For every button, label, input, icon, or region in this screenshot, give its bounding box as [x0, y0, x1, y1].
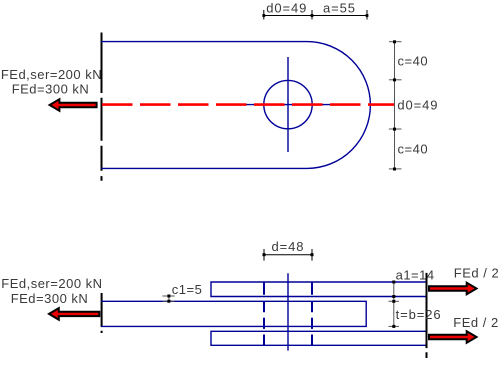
top fork plate [211, 282, 427, 297]
pin edge left (hidden, dashed) [263, 281, 265, 345]
force arrow FEd/2 lower [429, 331, 477, 343]
force arrow FEd/2 upper [429, 283, 477, 295]
force arrow FEd (left, top view) [50, 99, 97, 111]
svg-text:FEd,ser=200 kN: FEd,ser=200 kN [1, 67, 102, 82]
pin centerline (bottom) [287, 273, 289, 350]
svg-text:a=55: a=55 [323, 0, 356, 15]
pin hole [264, 80, 312, 128]
dimension d0=49 / a=55 (top) [264, 10, 367, 20]
dimension c=40 / d0=49 / c=40 (right) [389, 42, 402, 169]
svg-text:FEd / 2: FEd / 2 [454, 266, 499, 281]
support line left (black dashed) [101, 33, 103, 182]
svg-text:d=48: d=48 [272, 239, 305, 254]
dimension c1=5 [162, 296, 174, 301]
pin edge right (hidden, dashed) [311, 281, 313, 345]
svg-text:c=40: c=40 [398, 53, 429, 68]
lug outline [101, 42, 370, 169]
support line left (bottom view) [101, 293, 103, 334]
middle plate (lug plate) [101, 301, 366, 326]
bottom fork plate [211, 331, 427, 345]
svg-text:FEd / 2: FEd / 2 [453, 315, 498, 330]
svg-text:FEd=300 kN: FEd=300 kN [11, 291, 89, 306]
svg-text:c=40: c=40 [398, 142, 429, 157]
svg-text:d0=49: d0=49 [266, 0, 307, 15]
dimension d=48 (bottom) [264, 249, 312, 261]
svg-text:t=b=26: t=b=26 [396, 307, 442, 322]
force arrow FEd (left, bottom view) [49, 308, 99, 320]
svg-text:a1=14: a1=14 [396, 268, 435, 283]
support line right (bottom view) [426, 273, 428, 358]
svg-text:FEd=300 kN: FEd=300 kN [12, 82, 90, 97]
svg-text:d0=49: d0=49 [397, 97, 438, 112]
svg-text:FEd,ser=200 kN: FEd,ser=200 kN [1, 276, 102, 291]
hole cross vertical [287, 57, 289, 152]
hole cross horizontal [238, 104, 338, 106]
svg-text:c1=5: c1=5 [172, 282, 203, 297]
dimension a1=14 / t=b=26 (right) [389, 282, 400, 326]
red centerline [102, 103, 394, 106]
